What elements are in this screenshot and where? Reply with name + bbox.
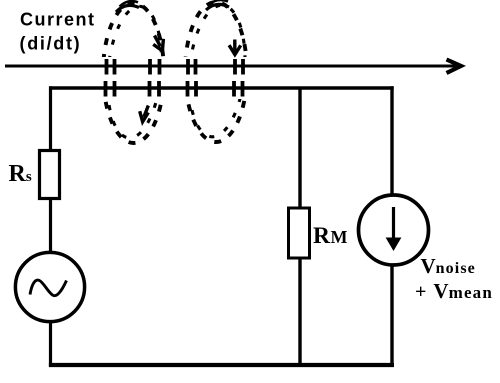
wire right vertical lower: [390, 266, 393, 366]
svg-text:+Vmean: +Vmean: [415, 279, 493, 303]
sine symbol: [30, 280, 67, 296]
loop 1 arrow bottom: [140, 106, 149, 122]
loop 2 top cap: [206, 0, 229, 10]
crossing ticks loop1 line2: [106, 81, 160, 97]
source Vnoise circle: [359, 195, 429, 265]
wire left vertical upper: [49, 86, 52, 150]
wire circuit top: [49, 86, 394, 89]
loop 1 arrow top-right: [153, 36, 163, 51]
wire middle vertical upper: [298, 88, 301, 209]
svg-text:Vnoise: Vnoise: [421, 254, 476, 278]
resistor Rs: [40, 151, 60, 199]
wire right vertical upper: [390, 86, 393, 196]
wire left vertical lower: [49, 322, 52, 367]
resistor RM: [289, 208, 310, 258]
flux loop 1 (dashed ellipse): [102, 3, 166, 143]
crossing ticks loop1 line1: [107, 59, 160, 75]
flux loop 2 (dashed ellipse): [184, 2, 250, 142]
svg-text:(di/dt): (di/dt): [20, 34, 82, 54]
wire current arrow line: [5, 65, 457, 68]
wire middle vertical lower: [298, 257, 301, 365]
arrow inside Vnoise source: [392, 207, 395, 243]
svg-text:Current: Current: [20, 10, 96, 30]
source V1 sine: [15, 252, 84, 321]
loop 1 top cap: [116, 1, 139, 12]
wire left vertical middle: [49, 200, 52, 253]
arrowhead of current arrow: [447, 60, 462, 74]
crossing ticks loop2 line1: [188, 59, 243, 75]
svg-text:Rs: Rs: [9, 161, 32, 187]
crossing ticks loop2 line2: [188, 81, 243, 97]
loop 2 arrow top: [229, 40, 241, 55]
wire bottom: [49, 363, 394, 367]
svg-text:RM: RM: [313, 223, 347, 249]
